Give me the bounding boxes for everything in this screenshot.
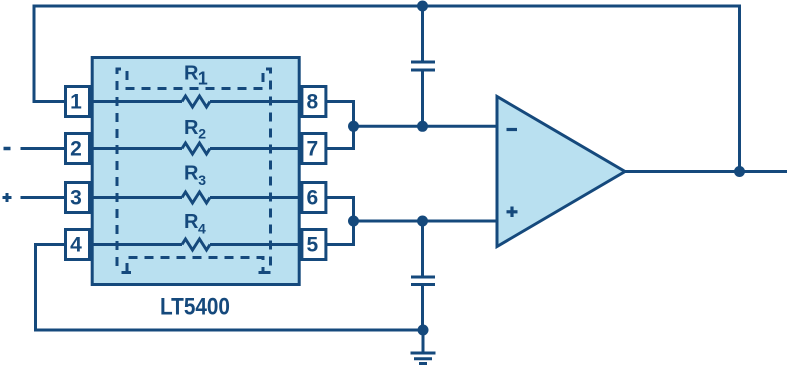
node output junction [734,166,745,177]
pin box 7 [302,134,326,164]
op-amp minus sign [507,128,518,131]
wire bottom capacitor lower lead [421,285,424,331]
wire minus lead to pin 2 [21,147,66,150]
pin box 6 [302,183,326,213]
svg-text:R: R [184,163,199,185]
wire row 2 inside IC [89,147,182,150]
pin box 3 [66,183,90,213]
pin box 4 [66,230,90,260]
dashed matched-resistor outline right bracket [262,69,271,267]
op-amp U1 [497,97,625,247]
node noninverting cap junction [417,216,428,227]
svg-text:2: 2 [70,138,82,161]
minus input lead label [4,147,11,151]
wire pins 6-5 tie bracket [327,198,354,245]
svg-text:R: R [184,117,199,139]
pin box 2 [66,134,90,164]
wire plus lead to pin 3 [21,196,66,199]
svg-text:6: 6 [306,187,318,210]
capacitor C1 bottom plate [411,69,435,72]
svg-text:3: 3 [70,187,82,210]
svg-text:1: 1 [70,91,82,114]
ground [411,352,436,355]
node pins 8-7 junction [348,121,359,132]
wire noninverting input net [354,220,498,223]
resistor R1 [182,96,210,107]
pin box 8 [302,87,326,117]
svg-text:4: 4 [198,220,206,236]
wire row 4 inside IC [89,243,182,246]
dashed matched-resistor outline top rail [127,71,263,89]
svg-text:4: 4 [70,234,82,257]
svg-text:2: 2 [198,126,206,142]
feedback wire from output to pin 1 [34,6,740,172]
wire inverting input net [354,125,498,128]
svg-text:3: 3 [198,172,206,188]
svg-text:8: 8 [306,91,318,114]
node ground junction [418,325,429,336]
svg-text:LT5400: LT5400 [160,292,230,320]
plus input lead label [3,196,12,199]
wire row 3 inside IC [89,196,182,199]
wire pins 8-7 tie bracket [327,102,354,149]
resistor R2 [182,143,210,154]
dashed matched-resistor outline left bracket [117,69,125,267]
IC body LT5400 [92,58,299,285]
svg-text:R: R [184,63,199,85]
op-amp plus sign [507,210,518,213]
svg-text:5: 5 [306,234,318,257]
wire row 1 inside IC [89,100,182,103]
wire top capacitor lower lead [421,70,424,126]
svg-text:7: 7 [306,138,318,161]
capacitor C2 top plate [411,276,435,279]
node top rail junction [417,1,428,12]
wire output [625,170,787,173]
pin box 5 [302,230,326,260]
wire ground lead [422,330,425,353]
node pins 6-5 junction [348,216,359,227]
capacitor C2 bottom plate [411,283,435,286]
resistor R3 [182,192,210,203]
wire top capacitor upper lead [421,6,424,62]
wire bottom capacitor upper lead [421,221,424,277]
wire pin 4 to bottom rail [36,245,424,331]
svg-text:1: 1 [198,69,208,89]
pin box 1 [66,87,90,117]
dashed matched-resistor outline bottom rail [127,258,263,273]
svg-text:R: R [184,211,199,233]
resistor R4 [182,239,210,250]
capacitor C1 top plate [411,61,435,64]
node inverting cap junction [417,121,428,132]
